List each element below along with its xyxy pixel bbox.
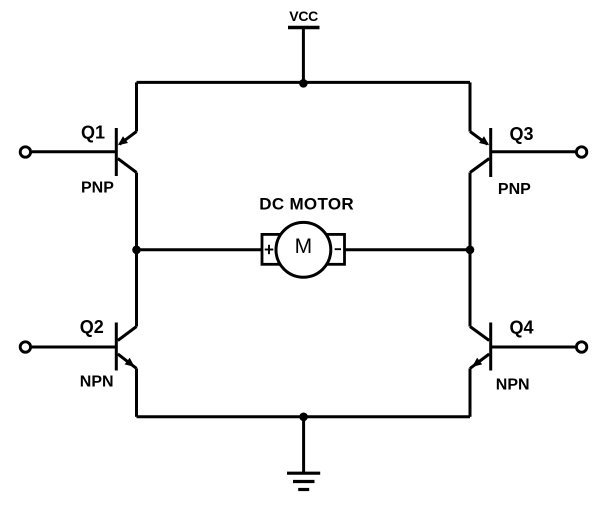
svg-text:DC MOTOR: DC MOTOR <box>259 194 354 213</box>
svg-text:Q4: Q4 <box>510 317 534 337</box>
svg-text:PNP: PNP <box>498 181 531 198</box>
svg-text:Q3: Q3 <box>510 124 534 144</box>
svg-text:NPN: NPN <box>496 376 530 393</box>
svg-text:Q1: Q1 <box>81 123 105 143</box>
svg-text:VCC: VCC <box>289 8 318 24</box>
svg-text:M: M <box>295 235 313 258</box>
svg-text:Q2: Q2 <box>80 317 104 337</box>
svg-text:PNP: PNP <box>81 179 114 196</box>
svg-text:NPN: NPN <box>80 374 114 391</box>
